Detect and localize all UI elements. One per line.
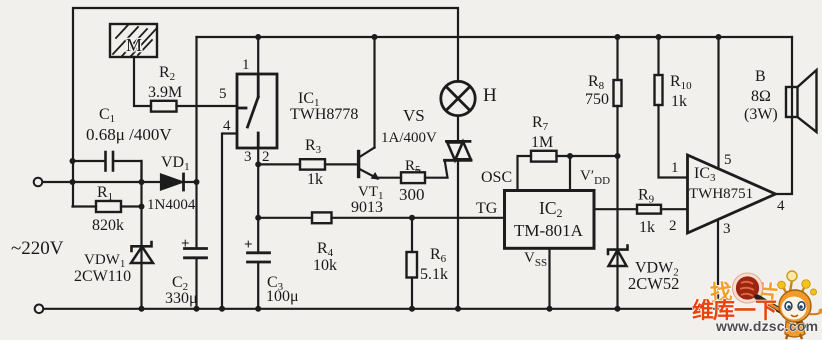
wire R7 to R8 node — [557, 155, 618, 157]
wire VT1 collector — [373, 37, 375, 148]
wire VDW1 vertical — [140, 161, 142, 309]
svg-text:+: + — [181, 236, 190, 252]
svg-text:OSC: OSC — [481, 169, 512, 186]
resistor R8 — [614, 80, 622, 106]
wire R5 to gate — [425, 161, 448, 178]
wire triac cathode down — [457, 160, 459, 308]
svg-text:1k: 1k — [307, 171, 323, 188]
wire VDD pin — [569, 156, 571, 191]
resistor R10 — [655, 75, 663, 105]
resistor R3 — [300, 159, 325, 169]
capacitor C2 — [185, 249, 207, 258]
svg-text:1: 1 — [242, 57, 250, 73]
svg-text:100μ: 100μ — [266, 288, 299, 305]
resistor R9 — [637, 205, 661, 214]
diode VD1 — [161, 174, 184, 190]
wire emitter to R5 — [377, 177, 401, 179]
resistor R5 — [401, 172, 425, 183]
wire R6 vertical — [411, 218, 413, 309]
svg-text:TM-801A: TM-801A — [514, 221, 584, 240]
svg-text:(3W): (3W) — [744, 106, 778, 123]
wire lamp to triac — [457, 116, 459, 142]
wire VD1 cathode to DC node — [184, 181, 197, 183]
wire R4 TG line — [258, 217, 504, 219]
svg-text:B: B — [755, 68, 766, 85]
svg-text:10k: 10k — [313, 257, 337, 274]
wire IC3 pin4 out — [776, 37, 793, 194]
svg-text:1A/400V: 1A/400V — [381, 130, 437, 146]
wire M to R2 — [134, 57, 151, 106]
svg-text:300: 300 — [399, 185, 425, 204]
wire R9 line — [594, 208, 688, 210]
mascot — [778, 271, 822, 339]
wire IC3 pin3 — [717, 220, 719, 309]
wire IC1 pin4 — [222, 134, 237, 309]
wire C1 right — [114, 161, 142, 182]
wire top AC rail — [73, 8, 458, 207]
svg-text:9013: 9013 — [351, 199, 383, 216]
zener VDW1 — [131, 242, 153, 263]
IC1 TWH8778 — [237, 74, 277, 148]
pen handle — [757, 297, 800, 322]
resistor R1 — [96, 201, 121, 212]
svg-text:TWH8778: TWH8778 — [290, 106, 358, 123]
svg-text:1k: 1k — [671, 93, 687, 110]
svg-text:1N4004: 1N4004 — [147, 197, 196, 213]
watermark dzsc logo — [692, 271, 822, 339]
resistor R2 — [151, 101, 177, 112]
wire C1 branch — [73, 160, 106, 162]
svg-text:3: 3 — [723, 221, 731, 237]
resistor R6 — [407, 252, 418, 278]
svg-text:5: 5 — [219, 86, 227, 102]
wire AC top to node — [43, 181, 161, 183]
lamp H — [441, 81, 475, 115]
wire R1 branch — [73, 205, 142, 207]
wire R2 to pin5 — [177, 105, 238, 107]
transistor VT1 — [359, 148, 379, 180]
svg-text:330μ: 330μ — [165, 290, 198, 307]
svg-text:2CW110: 2CW110 — [74, 268, 131, 285]
wire IC1 pin1 — [257, 37, 259, 74]
svg-text:820k: 820k — [92, 217, 124, 234]
wire IC3 pin5 — [717, 37, 719, 169]
wire DC node vertical — [195, 37, 197, 309]
zener VDW2 — [608, 246, 628, 267]
capacitor C1 — [106, 152, 114, 171]
svg-text:0.68μ /400V: 0.68μ /400V — [86, 125, 172, 144]
svg-text:3: 3 — [244, 149, 252, 165]
resistor R7 — [531, 151, 557, 162]
svg-text:3.9M: 3.9M — [148, 84, 182, 101]
svg-text:1M: 1M — [531, 134, 553, 151]
triac VS — [445, 141, 472, 160]
wire IC1 pin2-3 down — [257, 148, 259, 309]
svg-text:+: + — [244, 237, 253, 253]
svg-text:2: 2 — [669, 218, 677, 234]
svg-text:4: 4 — [223, 118, 231, 134]
wire R3 line — [258, 163, 357, 165]
speaker B — [786, 70, 817, 132]
terminal AC input top — [34, 178, 43, 187]
svg-text:TWH8751: TWH8751 — [689, 186, 753, 202]
capacitor C3 — [248, 253, 270, 262]
svg-text:2: 2 — [262, 149, 270, 165]
svg-text:4: 4 — [777, 198, 785, 214]
svg-text:1: 1 — [671, 160, 679, 176]
svg-text:5: 5 — [724, 152, 732, 168]
op-amp IC3 TWH8751 — [688, 155, 776, 233]
wire VSS pin — [548, 248, 550, 308]
wire bottom neutral rail — [44, 308, 719, 310]
wire DC positive rail — [197, 36, 793, 38]
svg-text:H: H — [483, 85, 497, 106]
svg-text:1k: 1k — [639, 219, 655, 236]
svg-text:M: M — [126, 35, 142, 55]
svg-text:2CW52: 2CW52 — [628, 274, 679, 293]
svg-text:TG: TG — [476, 200, 498, 217]
svg-text:~220V: ~220V — [11, 238, 64, 259]
svg-text:750: 750 — [585, 91, 609, 108]
svg-text:VS: VS — [403, 106, 425, 125]
terminal AC input bottom — [35, 305, 44, 314]
svg-text:8Ω: 8Ω — [751, 88, 771, 105]
motor sensor M — [110, 24, 157, 57]
svg-text:www.dzsc.com: www.dzsc.com — [715, 318, 818, 334]
wire R10 to pin1 — [659, 37, 688, 178]
svg-text:5.1k: 5.1k — [420, 266, 448, 283]
resistor R4 — [312, 212, 332, 223]
wire R8 vertical — [616, 37, 618, 309]
wire OSC pin — [518, 156, 532, 191]
IC2 TM-801A — [505, 191, 595, 249]
